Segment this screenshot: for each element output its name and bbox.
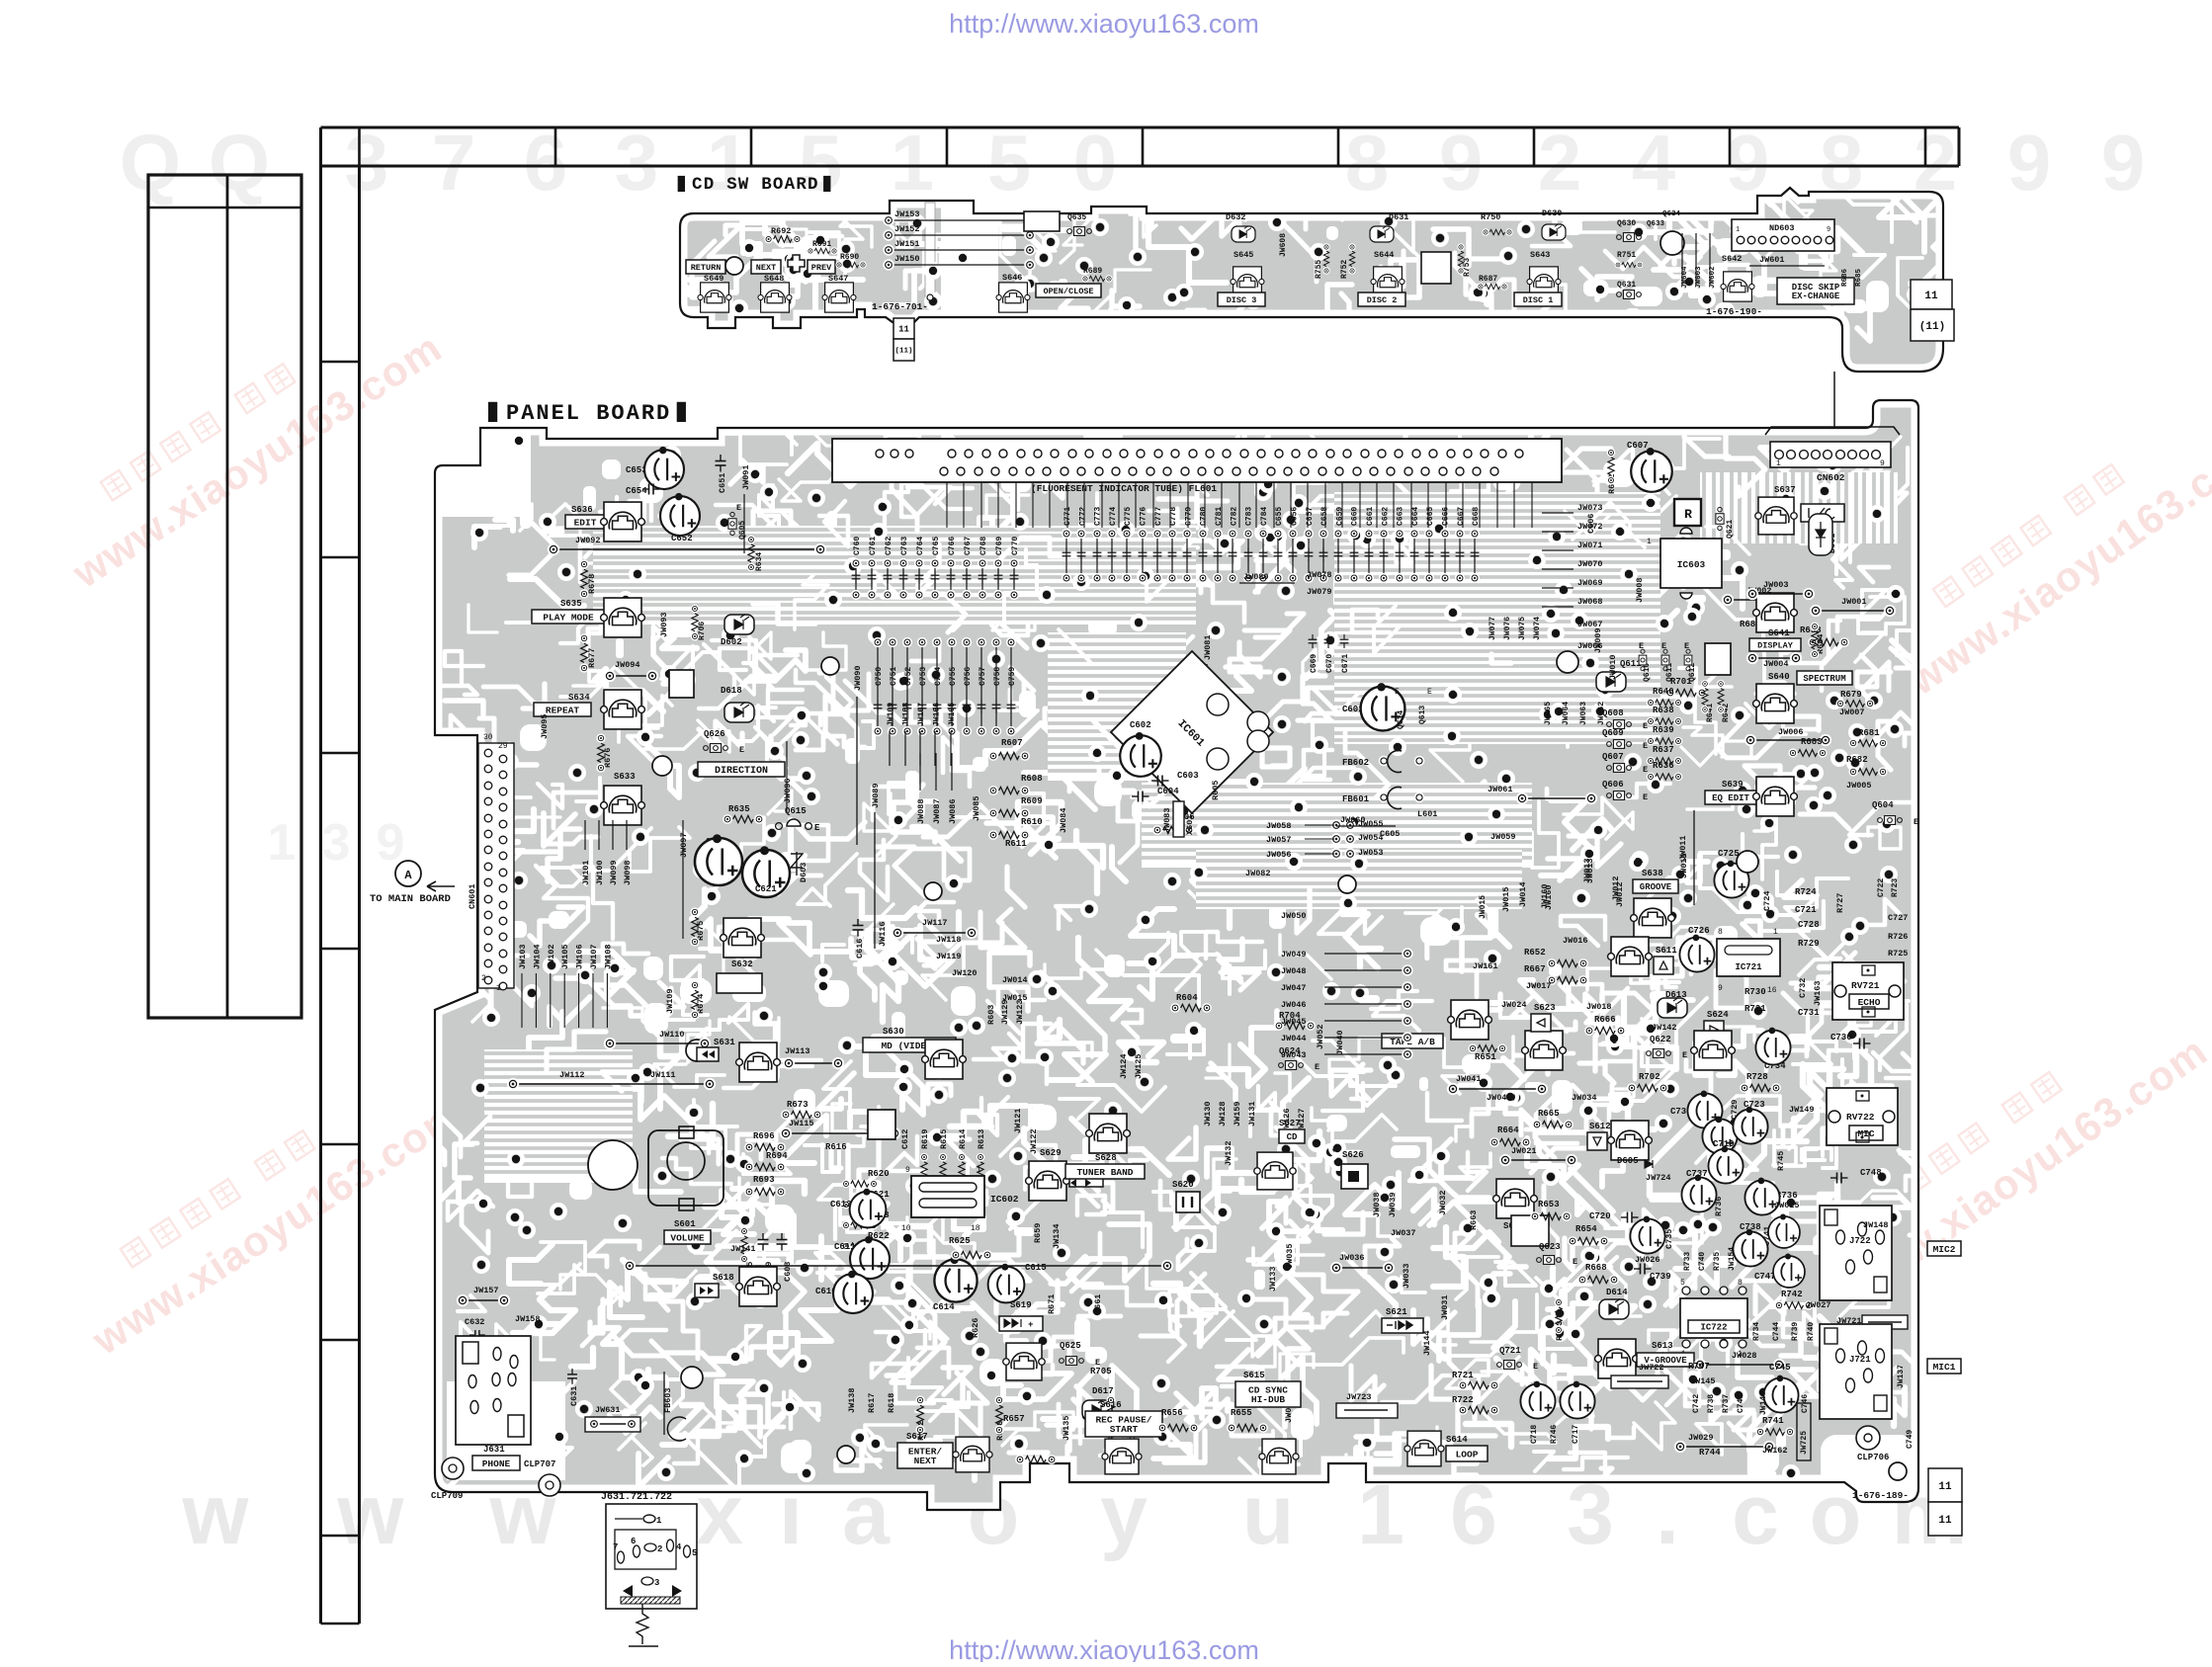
svg-text:C654: C654 [626, 486, 647, 496]
svg-text:R666: R666 [1594, 1015, 1616, 1025]
svg-text:C745: C745 [1769, 1363, 1791, 1373]
svg-text:JW037: JW037 [1391, 1228, 1416, 1238]
svg-text:MIC: MIC [1857, 1128, 1874, 1139]
svg-text:JW601: JW601 [1759, 255, 1785, 265]
svg-text:JW007: JW007 [1839, 708, 1865, 717]
svg-text:JW006: JW006 [1778, 727, 1804, 737]
svg-text:C761: C761 [869, 537, 878, 555]
svg-text:JW141: JW141 [730, 1244, 756, 1254]
svg-text:IC602: IC602 [990, 1194, 1019, 1205]
svg-text:C775: C775 [1124, 507, 1133, 526]
svg-text:R673: R673 [787, 1100, 808, 1110]
svg-text:R654: R654 [1575, 1224, 1597, 1234]
svg-text:JW057: JW057 [1266, 835, 1292, 845]
svg-text:C718: C718 [1530, 1425, 1539, 1444]
svg-text:R664: R664 [1497, 1125, 1519, 1135]
svg-text:JW101: JW101 [581, 860, 591, 885]
svg-text:JW115: JW115 [789, 1119, 814, 1128]
svg-text:Q621: Q621 [1726, 520, 1735, 539]
svg-text:S611: S611 [1656, 946, 1677, 956]
svg-text:C651: C651 [718, 473, 727, 493]
svg-text:Q633: Q633 [1647, 220, 1665, 228]
svg-text:C613: C613 [830, 1200, 852, 1209]
svg-text:R742: R742 [1781, 1290, 1803, 1299]
svg-text:D617: D617 [1092, 1386, 1114, 1396]
svg-text:JW095: JW095 [540, 713, 550, 739]
svg-text:ND603: ND603 [1769, 223, 1795, 233]
svg-text:JW111: JW111 [650, 1070, 676, 1080]
svg-text:Q631: Q631 [1617, 281, 1636, 290]
svg-text:R739: R739 [1791, 1322, 1800, 1341]
svg-text:JW089: JW089 [871, 783, 881, 808]
svg-text:JW124: JW124 [1119, 1053, 1129, 1079]
svg-text:S614: S614 [1446, 1435, 1468, 1445]
svg-text:C607: C607 [1627, 441, 1649, 451]
svg-text:JW079: JW079 [1307, 587, 1332, 597]
svg-text:JW631: JW631 [595, 1405, 621, 1415]
svg-text:S639: S639 [1722, 780, 1744, 790]
svg-text:JW098: JW098 [623, 860, 633, 885]
svg-text:R659: R659 [1033, 1223, 1043, 1243]
svg-text:R653: R653 [1538, 1200, 1560, 1209]
svg-text:C602: C602 [1130, 720, 1151, 730]
svg-text:JW160: JW160 [1544, 884, 1554, 910]
svg-text:JW024: JW024 [1501, 1000, 1527, 1010]
page reference boxes 11 [1928, 1468, 1962, 1502]
svg-text:R614: R614 [958, 1129, 968, 1149]
svg-text:JW076: JW076 [1503, 617, 1512, 640]
svg-text:R619: R619 [920, 1129, 930, 1149]
svg-text:S629: S629 [1040, 1148, 1062, 1158]
svg-text:E: E [1643, 765, 1648, 775]
svg-text:10: 10 [901, 1224, 911, 1233]
svg-text:R752: R752 [1340, 260, 1349, 279]
svg-text:R641: R641 [1706, 704, 1715, 722]
svg-text:9: 9 [1880, 459, 1885, 468]
svg-text:E: E [1643, 792, 1648, 802]
svg-text:JW061: JW061 [1488, 785, 1513, 794]
svg-text:JW725: JW725 [1800, 1431, 1809, 1455]
svg-text:R668: R668 [1585, 1263, 1607, 1273]
svg-text:JW015: JW015 [1501, 886, 1511, 912]
svg-text:C744: C744 [1772, 1322, 1781, 1341]
svg-text:3: 3 [345, 119, 389, 207]
svg-text:C608: C608 [783, 1262, 793, 1282]
svg-text:JW118: JW118 [936, 935, 962, 945]
svg-text:JW064: JW064 [1562, 702, 1571, 725]
svg-text:S627: S627 [1279, 1119, 1301, 1128]
svg-text:C657: C657 [1306, 507, 1315, 526]
svg-text:C604: C604 [1157, 787, 1179, 796]
label MIC2 [1927, 1241, 1961, 1256]
svg-text:IC721: IC721 [1735, 962, 1762, 972]
svg-text:R737: R737 [1722, 1394, 1731, 1413]
svg-text:JW159: JW159 [1233, 1101, 1242, 1126]
svg-text:18: 18 [971, 1224, 980, 1233]
svg-text:Q635: Q635 [1067, 213, 1086, 222]
svg-text:Q721: Q721 [1499, 1346, 1521, 1356]
svg-text:JW132: JW132 [1224, 1140, 1234, 1166]
svg-text:R693: R693 [753, 1175, 775, 1185]
svg-text:R608: R608 [1021, 774, 1043, 784]
svg-text:TO MAIN BOARD: TO MAIN BOARD [370, 893, 451, 905]
svg-text:C771: C771 [1063, 507, 1072, 526]
svg-text:C750: C750 [875, 667, 884, 686]
svg-text:C612: C612 [900, 1129, 910, 1149]
svg-text:Q625: Q625 [1060, 1341, 1081, 1351]
svg-text:C726: C726 [1688, 926, 1710, 936]
svg-text:Q622: Q622 [1650, 1035, 1671, 1044]
svg-text:C758: C758 [993, 667, 1002, 686]
svg-text:R736: R736 [1714, 1197, 1724, 1216]
svg-text:R651: R651 [1475, 1052, 1496, 1062]
svg-text:JW014: JW014 [1002, 975, 1028, 985]
svg-text:S617: S617 [906, 1432, 928, 1442]
svg-text:R729: R729 [1798, 939, 1820, 949]
svg-text:C749: C749 [1906, 1430, 1914, 1449]
svg-text:DISC 2: DISC 2 [1367, 295, 1398, 305]
svg-text:R613: R613 [977, 1129, 986, 1149]
svg-text:1: 1 [656, 1516, 662, 1526]
svg-text:JW058: JW058 [1266, 821, 1292, 831]
svg-text:DISPLAY: DISPLAY [1757, 641, 1794, 651]
svg-text:JW065: JW065 [1544, 702, 1553, 725]
svg-text:JW123: JW123 [1015, 999, 1025, 1025]
svg-text:JW119: JW119 [936, 952, 962, 961]
svg-text:OPEN/CLOSE: OPEN/CLOSE [1043, 287, 1093, 296]
svg-text:S644: S644 [1374, 250, 1394, 260]
svg-text:http://www.xiaoyu163.com: http://www.xiaoyu163.com [949, 9, 1259, 39]
svg-text:R615: R615 [939, 1129, 949, 1149]
svg-text:D602: D602 [721, 637, 742, 647]
svg-text:JW100: JW100 [595, 860, 605, 885]
svg-text:JW045: JW045 [1281, 1017, 1307, 1027]
svg-text:JW108: JW108 [603, 944, 613, 969]
svg-text:C660: C660 [1351, 507, 1360, 526]
svg-text:Q604: Q604 [1872, 800, 1894, 810]
svg-text:R683: R683 [1801, 737, 1823, 747]
svg-text:JW167: JW167 [917, 703, 926, 726]
svg-text:R706: R706 [698, 622, 707, 640]
svg-text:C721: C721 [1795, 905, 1817, 915]
svg-text:JW049: JW049 [1281, 950, 1307, 959]
svg-text:JW034: JW034 [1572, 1093, 1597, 1103]
svg-text:C666: C666 [1442, 507, 1451, 526]
svg-text:S620: S620 [1172, 1180, 1194, 1190]
svg-text:C748: C748 [1860, 1168, 1882, 1178]
svg-text:JW017: JW017 [1526, 981, 1552, 991]
svg-text:JW083: JW083 [1162, 807, 1172, 833]
svg-text:JW094: JW094 [615, 660, 640, 670]
svg-text:E: E [1573, 1257, 1577, 1267]
svg-text:C739: C739 [1650, 1272, 1671, 1282]
svg-text:C762: C762 [885, 537, 893, 555]
svg-text:D618: D618 [721, 686, 742, 696]
title PANEL BOARD [488, 402, 497, 422]
svg-text:D630: D630 [1542, 208, 1562, 218]
svg-text:JW142: JW142 [1652, 1023, 1677, 1033]
svg-text:JW056: JW056 [1266, 850, 1292, 860]
title CD SW BOARD [678, 176, 685, 192]
svg-text:C763: C763 [900, 537, 909, 555]
svg-text:C671: C671 [1341, 654, 1350, 673]
svg-text:S613: S613 [1652, 1341, 1673, 1351]
svg-text:JW117: JW117 [922, 918, 948, 928]
svg-text:JW144: JW144 [1422, 1330, 1432, 1356]
svg-text:8: 8 [1345, 119, 1390, 207]
svg-text:R642: R642 [1722, 704, 1731, 722]
svg-text:C717: C717 [1572, 1425, 1580, 1444]
svg-text:Q611: Q611 [1665, 663, 1674, 682]
svg-text:VOLUME: VOLUME [670, 1232, 705, 1243]
svg-text:JW169: JW169 [887, 703, 895, 726]
svg-text:JW125: JW125 [1134, 1053, 1144, 1079]
svg-text:R603: R603 [986, 1005, 996, 1025]
PANEL BOARD outline and copper [408, 385, 1982, 1510]
svg-text:JW031: JW031 [1440, 1294, 1450, 1320]
svg-text:R685: R685 [1855, 268, 1863, 287]
svg-text:S637: S637 [1774, 485, 1796, 495]
svg-text:ECHO: ECHO [1858, 997, 1881, 1008]
svg-text:S645: S645 [1234, 250, 1253, 260]
svg-text:1: 1 [891, 119, 935, 207]
svg-text:C742: C742 [1692, 1394, 1701, 1413]
svg-text:C656: C656 [1291, 507, 1300, 526]
svg-text:JW025: JW025 [1774, 1201, 1800, 1210]
svg-text:16: 16 [1767, 986, 1777, 995]
svg-text:C770: C770 [1011, 537, 1020, 555]
svg-text:1: 1 [1773, 928, 1778, 937]
svg-text:JW063: JW063 [1579, 702, 1588, 725]
svg-text:(11): (11) [894, 348, 912, 356]
svg-text:29: 29 [498, 742, 508, 751]
svg-text:R679: R679 [1840, 690, 1862, 700]
svg-text:JW013: JW013 [1585, 858, 1595, 883]
svg-text:R661: R661 [1093, 1294, 1103, 1314]
svg-text:2: 2 [481, 974, 486, 983]
svg-text:JW166: JW166 [933, 703, 942, 726]
svg-text:J722: J722 [1849, 1236, 1871, 1246]
svg-text:FB601: FB601 [1342, 794, 1370, 804]
svg-text:R735: R735 [1713, 1252, 1722, 1271]
svg-text:R626: R626 [971, 1318, 980, 1338]
svg-text:11: 11 [898, 325, 909, 335]
svg-text:R652: R652 [1524, 948, 1546, 958]
svg-text:9: 9 [1439, 119, 1484, 207]
svg-text:JW004: JW004 [1763, 659, 1789, 669]
svg-text:JW162: JW162 [1762, 1446, 1788, 1456]
svg-text:R635: R635 [728, 804, 750, 814]
svg-text:R723: R723 [1891, 878, 1900, 897]
svg-text:C781: C781 [1215, 507, 1224, 526]
svg-text:JW157: JW157 [473, 1286, 499, 1295]
svg-text:S623: S623 [1534, 1003, 1556, 1013]
svg-text:R638: R638 [1653, 706, 1674, 715]
svg-text:R738: R738 [1707, 1394, 1716, 1413]
svg-text:R733: R733 [1683, 1252, 1692, 1271]
svg-text:1-676-189-: 1-676-189- [1852, 1490, 1909, 1501]
svg-text:RV721: RV721 [1851, 980, 1880, 991]
svg-text:D605: D605 [1617, 1156, 1639, 1166]
svg-text:9: 9 [1827, 226, 1830, 234]
svg-text:Q623: Q623 [1539, 1242, 1561, 1252]
svg-text:JW015: JW015 [1479, 895, 1488, 919]
svg-text:JW153: JW153 [894, 209, 920, 219]
svg-text:Q607: Q607 [1602, 752, 1624, 762]
svg-text:E: E [736, 503, 741, 513]
svg-text:R678: R678 [587, 574, 597, 594]
svg-text:JW150: JW150 [894, 254, 920, 264]
connector J631,721,722 pin detail [601, 1492, 697, 1646]
svg-text:JW722: JW722 [1639, 1363, 1664, 1373]
svg-text:E: E [739, 745, 744, 755]
svg-text:C730: C730 [1830, 1033, 1852, 1042]
svg-text:R692: R692 [771, 226, 791, 236]
svg-text:1: 1 [977, 1166, 981, 1175]
svg-text:MIC1: MIC1 [1933, 1362, 1956, 1373]
svg-text:C606: C606 [1586, 514, 1596, 534]
svg-text:JW109: JW109 [665, 988, 675, 1014]
drawing frame rulers and revision table [321, 127, 1960, 166]
svg-text:JW158: JW158 [515, 1314, 541, 1324]
svg-text:S612: S612 [1589, 1122, 1611, 1131]
svg-text:JW130: JW130 [1203, 1101, 1213, 1126]
svg-text:JW128: JW128 [1218, 1101, 1228, 1126]
svg-text:S615: S615 [1243, 1371, 1265, 1380]
svg-text:C778: C778 [1169, 507, 1178, 526]
svg-text:SPECTRUM: SPECTRUM [1803, 674, 1845, 684]
svg-text:JW008: JW008 [1635, 577, 1645, 603]
svg-text:R745: R745 [1776, 1151, 1786, 1171]
svg-text:IC603: IC603 [1677, 559, 1706, 570]
svg-text:R: R [1684, 507, 1692, 522]
svg-text:R655: R655 [1231, 1408, 1252, 1418]
svg-text:PREV: PREV [811, 263, 832, 273]
svg-text:GROOVE: GROOVE [1640, 882, 1672, 892]
svg-text:JW121: JW121 [1013, 1108, 1023, 1133]
svg-text:4: 4 [1632, 119, 1676, 207]
svg-text:JW059: JW059 [1490, 832, 1516, 842]
PANEL BOARD components [370, 427, 1962, 1536]
svg-text:JW097: JW097 [679, 832, 689, 858]
svg-text:JW086: JW086 [948, 798, 958, 824]
svg-text:R616: R616 [825, 1142, 847, 1152]
svg-text:C615: C615 [1025, 1263, 1047, 1273]
svg-text:C765: C765 [932, 537, 941, 555]
svg-text:S641: S641 [1768, 628, 1790, 638]
svg-text:JW062: JW062 [1597, 702, 1606, 725]
svg-text:C783: C783 [1245, 507, 1254, 526]
svg-text:JW041: JW041 [1456, 1074, 1482, 1084]
svg-text:R677: R677 [587, 648, 597, 668]
svg-text:JW085: JW085 [972, 795, 981, 821]
svg-text:S646: S646 [1002, 273, 1022, 283]
svg-text:JW090: JW090 [853, 665, 863, 691]
svg-text:R625: R625 [949, 1236, 971, 1246]
svg-text:R640: R640 [1653, 687, 1674, 697]
svg-text:C725: C725 [1718, 849, 1740, 859]
svg-text:JW073: JW073 [1577, 503, 1603, 513]
CD SW BOARD outline and copper [625, 147, 1999, 372]
svg-text:JW087: JW087 [932, 798, 942, 824]
svg-text:S630: S630 [883, 1027, 904, 1037]
svg-text:JW168: JW168 [902, 703, 911, 726]
svg-text:HI-DUB: HI-DUB [1251, 1394, 1286, 1405]
svg-text:Q630: Q630 [1617, 219, 1636, 228]
svg-text:S616: S616 [1100, 1400, 1122, 1410]
svg-text:3: 3 [615, 119, 659, 207]
svg-text:R734: R734 [1752, 1322, 1761, 1341]
svg-text:R636: R636 [1653, 761, 1674, 771]
svg-text:R744: R744 [1699, 1448, 1721, 1458]
svg-text:JW021: JW021 [1511, 1146, 1537, 1156]
svg-text:C731: C731 [1798, 1008, 1820, 1018]
svg-text:J721: J721 [1849, 1355, 1871, 1365]
svg-text:(FLUORESENT INDICATOR TUBE) FL: (FLUORESENT INDICATOR TUBE) FL601 [1031, 483, 1217, 494]
svg-text:DISC 3: DISC 3 [1227, 295, 1257, 305]
svg-text:R753: R753 [1463, 258, 1472, 277]
svg-text:C779: C779 [1184, 507, 1193, 526]
svg-text:9: 9 [2007, 119, 2052, 207]
svg-text:C769: C769 [995, 537, 1004, 555]
svg-text:R687: R687 [1479, 275, 1497, 284]
svg-text:CLP709: CLP709 [431, 1491, 463, 1501]
svg-text:C668: C668 [1472, 507, 1481, 526]
svg-text:D603: D603 [799, 863, 808, 882]
svg-text:9: 9 [1726, 119, 1770, 207]
svg-text:S638: S638 [1642, 869, 1663, 878]
svg-text:JW096: JW096 [783, 778, 793, 803]
svg-text:R755: R755 [1315, 260, 1323, 279]
svg-text:R607: R607 [1001, 738, 1023, 748]
svg-text:JW039: JW039 [1388, 1192, 1398, 1217]
svg-text:JW074: JW074 [1533, 617, 1542, 640]
svg-text:JW042: JW042 [1487, 1093, 1512, 1103]
svg-text:R604: R604 [1176, 993, 1198, 1003]
svg-text:C752: C752 [904, 667, 913, 686]
svg-text:5: 5 [692, 1548, 697, 1558]
svg-text:C774: C774 [1109, 507, 1118, 526]
svg-text:JW152: JW152 [894, 224, 920, 234]
svg-text:R618: R618 [887, 1393, 896, 1413]
svg-text:R746: R746 [1550, 1425, 1559, 1444]
svg-text:C757: C757 [978, 667, 987, 686]
svg-text:4: 4 [676, 1542, 682, 1552]
svg-text:R605: R605 [1211, 781, 1221, 800]
svg-text:C740: C740 [1698, 1252, 1707, 1271]
svg-text:JW005: JW005 [1846, 781, 1872, 791]
CD SW BOARD components [686, 208, 1954, 433]
svg-text:JW151: JW151 [894, 239, 920, 249]
svg-text:JW069: JW069 [1577, 578, 1603, 588]
svg-text:S631: S631 [714, 1038, 735, 1047]
svg-text:JW113: JW113 [785, 1046, 810, 1056]
svg-text:R726: R726 [1888, 932, 1908, 942]
svg-text:S633: S633 [614, 772, 636, 782]
svg-text:JW116: JW116 [878, 921, 888, 947]
svg-text:R728: R728 [1746, 1072, 1768, 1082]
svg-text:R657: R657 [1003, 1414, 1025, 1424]
svg-text:R691: R691 [812, 240, 831, 249]
svg-text:JW084: JW084 [1059, 807, 1068, 833]
svg-text:9: 9 [1718, 984, 1723, 993]
svg-text:R610: R610 [1021, 817, 1043, 827]
svg-text:CLP707: CLP707 [524, 1459, 555, 1469]
svg-text:JW033: JW033 [1402, 1263, 1411, 1289]
svg-text:S626: S626 [1342, 1150, 1364, 1160]
svg-text:C751: C751 [890, 667, 898, 686]
svg-text:JW016: JW016 [1563, 936, 1588, 946]
